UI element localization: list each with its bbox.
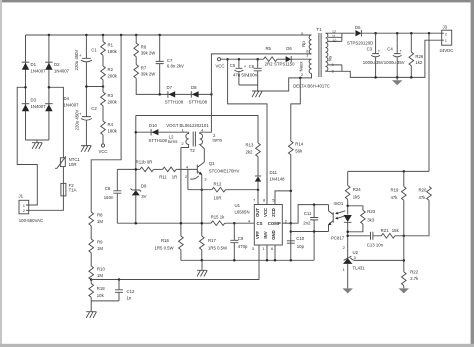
wire COMP stub bbox=[282, 222, 291, 224]
wire D10 line to T2 pin1 bbox=[136, 131, 189, 133]
svg-text:T2: T2 bbox=[190, 148, 196, 153]
junction emitter R12 bbox=[201, 188, 204, 191]
junction HV bus / R1 bbox=[102, 34, 105, 37]
wire aux return bbox=[258, 74, 312, 92]
resistor R11b bbox=[140, 167, 154, 172]
junction CS line D9 bbox=[135, 222, 138, 225]
wire D10 branch vertical bbox=[135, 116, 137, 191]
IC U1 box bbox=[254, 205, 282, 246]
svg-text:10R: 10R bbox=[69, 162, 77, 167]
wire feedback top rail bbox=[348, 170, 429, 172]
diode D7 bbox=[168, 91, 175, 97]
svg-text:39k 2W: 39k 2W bbox=[141, 72, 157, 77]
svg-text:VFF: VFF bbox=[255, 231, 260, 239]
svg-text:6.8n 2kV: 6.8n 2kV bbox=[167, 64, 184, 69]
wire OUT stub bbox=[257, 190, 259, 205]
wire C5 C6 bottoms bbox=[239, 85, 258, 91]
wire INV stub bbox=[266, 245, 268, 260]
svg-text:11: 11 bbox=[332, 35, 336, 39]
wire R23 bottom bbox=[348, 224, 363, 232]
junction HV bus / D2 rail bbox=[48, 34, 51, 37]
resistor R18 bbox=[89, 284, 94, 298]
fuse F2 bbox=[61, 183, 66, 199]
junction CS line R17 bbox=[201, 222, 204, 225]
svg-text:2k2: 2k2 bbox=[246, 149, 254, 154]
svg-text:180k: 180k bbox=[108, 129, 118, 134]
diode D6 bbox=[286, 56, 292, 62]
wire sec pins 12 11 10 tie bbox=[326, 33, 342, 41]
svg-text:C12: C12 bbox=[127, 289, 135, 294]
svg-text:15k: 15k bbox=[392, 228, 400, 233]
junction rail C9 bbox=[233, 259, 236, 262]
svg-text:12: 12 bbox=[332, 30, 336, 34]
svg-text:R23: R23 bbox=[367, 209, 375, 214]
junction VFF tap bbox=[90, 278, 93, 281]
wire sec pins 9 8 tie bbox=[326, 65, 342, 71]
junction TL431 ref bbox=[403, 259, 406, 262]
svg-text:Q1: Q1 bbox=[209, 161, 215, 166]
svg-text:C4: C4 bbox=[387, 47, 393, 52]
wire R4 to VCC terminal bbox=[102, 135, 104, 144]
wire R16 bottom bbox=[180, 250, 182, 261]
svg-text:1N4007: 1N4007 bbox=[31, 69, 47, 74]
wire R chain top bbox=[102, 35, 104, 42]
wire C11 bottom to rail bbox=[313, 232, 315, 261]
svg-text:R26: R26 bbox=[415, 54, 423, 59]
svg-text:PC817: PC817 bbox=[331, 236, 345, 241]
resistor R6 bbox=[134, 43, 139, 57]
svg-text:1M: 1M bbox=[97, 246, 103, 251]
wire output ground bus bbox=[342, 40, 442, 77]
svg-text:T1: T1 bbox=[316, 27, 322, 32]
resistor R1 bbox=[101, 42, 106, 56]
junction R26 top bbox=[410, 32, 413, 35]
svg-text:2R2: 2R2 bbox=[265, 62, 273, 67]
svg-text:R20: R20 bbox=[419, 187, 427, 192]
wire VFF sense from HV bus bbox=[91, 35, 121, 212]
svg-text:Ns: Ns bbox=[328, 56, 333, 61]
junction R19 C13 node bbox=[403, 235, 406, 238]
junction HV bus / C7 bbox=[158, 34, 161, 37]
junction rail C10 bbox=[290, 259, 293, 262]
svg-text:10R: 10R bbox=[214, 196, 222, 201]
capacitor C4 bbox=[393, 33, 402, 77]
ground primary rail bbox=[197, 270, 207, 276]
wire COMP riser bbox=[291, 205, 329, 224]
svg-text:R24: R24 bbox=[353, 187, 361, 192]
svg-text:+: + bbox=[399, 49, 402, 54]
svg-text:1n: 1n bbox=[127, 296, 132, 301]
svg-text:C1: C1 bbox=[91, 48, 97, 53]
wire 24V sense line bbox=[428, 33, 430, 171]
junction C3 top bbox=[374, 32, 377, 35]
wire R2 to mid bbox=[102, 80, 104, 92]
resistor R21 bbox=[381, 234, 395, 239]
resistor R20 bbox=[427, 187, 432, 201]
junction HV bus / R6 bbox=[135, 34, 138, 37]
capacitor C11 bbox=[310, 205, 318, 232]
svg-text:R14: R14 bbox=[295, 141, 303, 146]
svg-text:1M: 1M bbox=[97, 219, 103, 224]
wire AC left midpoint bbox=[17, 87, 37, 205]
junction LED cathode R23 bbox=[346, 231, 349, 234]
wire D1 rail bbox=[25, 35, 27, 140]
wire ZCD stub bbox=[275, 191, 291, 205]
capacitor C10 bbox=[287, 241, 295, 243]
wire R12 to OUT node bbox=[226, 189, 259, 191]
svg-text:D9: D9 bbox=[141, 183, 147, 188]
capacitor C13 bbox=[367, 232, 375, 240]
svg-text:C6: C6 bbox=[249, 64, 255, 69]
capacitor C8 bbox=[113, 169, 121, 223]
transistor Q1 bbox=[188, 162, 204, 190]
winding T1 primary Np bbox=[309, 35, 311, 54]
svg-text:STPS1150: STPS1150 bbox=[274, 62, 295, 67]
svg-text:C8: C8 bbox=[105, 186, 111, 191]
resistor R16 bbox=[179, 236, 184, 250]
wire D2 rail bbox=[48, 35, 50, 140]
wire HV top bus bbox=[26, 34, 312, 36]
svg-text:10p: 10p bbox=[297, 244, 305, 249]
resistor R4 bbox=[101, 121, 106, 135]
svg-text:1: 1 bbox=[445, 39, 447, 43]
core T2 bbox=[193, 132, 195, 147]
svg-text:R2: R2 bbox=[108, 67, 114, 72]
junction C11 bottom bbox=[313, 230, 316, 233]
svg-text:R5: R5 bbox=[265, 46, 271, 51]
svg-text:R9: R9 bbox=[97, 240, 103, 245]
capacitor C3 bbox=[371, 33, 380, 77]
svg-text:R3: R3 bbox=[108, 93, 114, 98]
svg-text:R18: R18 bbox=[97, 286, 105, 291]
svg-text:R6: R6 bbox=[141, 45, 147, 50]
junction C9 bbox=[233, 222, 236, 225]
capacitor C9 bbox=[230, 223, 238, 260]
window frame left bbox=[0, 0, 2, 347]
resistor R10 bbox=[89, 266, 94, 280]
svg-text:R11: R11 bbox=[159, 175, 167, 180]
wire R6-R7 bbox=[135, 57, 137, 65]
junction C5 bbox=[238, 58, 241, 61]
svg-text:D4: D4 bbox=[64, 96, 70, 101]
diode D11 bbox=[255, 176, 261, 190]
svg-text:DELTA B6H-4017C: DELTA B6H-4017C bbox=[293, 84, 330, 89]
svg-text:D8: D8 bbox=[191, 85, 197, 90]
junction rail R17 bbox=[201, 259, 204, 262]
resistor R23 bbox=[361, 210, 366, 224]
wire R11 to base bbox=[176, 168, 198, 170]
svg-text:R7: R7 bbox=[141, 66, 147, 71]
wire C12 bottom to R18 bottom bbox=[91, 300, 119, 302]
wire T1 pin6 to T2 winding bbox=[200, 54, 312, 132]
wire T2 pin2 down to R16 bbox=[180, 148, 182, 237]
wire R17 bottom bbox=[201, 250, 203, 261]
junction COMP node bbox=[290, 222, 293, 225]
wire R13 to D11 bbox=[257, 157, 259, 176]
svg-text:47k: 47k bbox=[419, 195, 427, 200]
svg-text:turns: turns bbox=[213, 138, 223, 143]
wire mid link C1C2 to R2R3 bbox=[86, 86, 103, 88]
capacitor C2 bbox=[79, 112, 92, 121]
svg-text:C11: C11 bbox=[304, 211, 312, 216]
capacitor C7 bbox=[156, 35, 164, 94]
wire VCC bus bbox=[221, 58, 264, 60]
resistor R19 bbox=[402, 187, 407, 201]
window frame right bbox=[471, 0, 474, 347]
junction CS line R16 bbox=[180, 222, 183, 225]
svg-text:D3: D3 bbox=[31, 98, 37, 103]
junction mid link left bbox=[85, 85, 88, 88]
svg-text:1N4007: 1N4007 bbox=[31, 104, 47, 109]
svg-text:1N4007: 1N4007 bbox=[54, 69, 70, 74]
svg-text:3V: 3V bbox=[141, 194, 146, 199]
ground bridge bbox=[32, 143, 42, 149]
ground VCC caps bbox=[252, 91, 262, 97]
wire R19 down bbox=[403, 200, 405, 272]
svg-text:2.7k: 2.7k bbox=[410, 276, 419, 281]
svg-text:R13: R13 bbox=[246, 142, 254, 147]
thermistor NTC1 bbox=[55, 152, 66, 184]
svg-text:C7: C7 bbox=[167, 58, 173, 63]
resistor R2 bbox=[101, 66, 106, 80]
junction R19 top bbox=[403, 170, 406, 173]
svg-text:56k: 56k bbox=[295, 148, 303, 153]
svg-text:TL431: TL431 bbox=[353, 265, 366, 270]
svg-text:220u 450V: 220u 450V bbox=[74, 49, 79, 70]
svg-text:R4: R4 bbox=[108, 122, 114, 127]
junction C6 bbox=[256, 58, 259, 61]
junction C3 bottom bbox=[374, 76, 377, 79]
svg-text:1k5: 1k5 bbox=[353, 194, 361, 199]
diode D3 bbox=[22, 104, 30, 112]
svg-text:3: 3 bbox=[306, 53, 308, 57]
wire CS line bbox=[117, 222, 211, 224]
wire 24V bus bbox=[362, 32, 442, 34]
svg-text:+: + bbox=[79, 53, 82, 58]
svg-text:C10: C10 bbox=[296, 236, 304, 241]
diode LED ISO1 bbox=[344, 215, 352, 258]
junction HV bus / C1 bbox=[85, 34, 88, 37]
svg-text:D7: D7 bbox=[167, 85, 173, 90]
junction D10 node bbox=[135, 131, 138, 134]
resistor R26 bbox=[409, 33, 414, 77]
resistor R15 bbox=[211, 221, 225, 226]
wire ground stub rail bbox=[201, 260, 203, 270]
junction opto return bbox=[290, 230, 293, 233]
wire bridge bottom bbox=[26, 139, 49, 141]
diode D10 bbox=[151, 129, 158, 135]
svg-text:1R: 1R bbox=[172, 175, 178, 180]
svg-text:VCC: VCC bbox=[263, 208, 268, 217]
wire R18 bottom to ground bbox=[90, 297, 92, 312]
junction gate line D9 branch bbox=[135, 168, 138, 171]
svg-text:39k 2W: 39k 2W bbox=[141, 51, 157, 56]
svg-text:200k: 200k bbox=[108, 100, 118, 105]
wire gate line corner bbox=[117, 168, 140, 170]
wire GND stub bbox=[274, 245, 276, 260]
svg-text:D5: D5 bbox=[355, 25, 361, 30]
svg-text:D6: D6 bbox=[286, 46, 292, 51]
capacitor C5 bbox=[234, 59, 246, 85]
winding T2 primary L2 bbox=[181, 132, 189, 147]
svg-text:470p: 470p bbox=[238, 244, 248, 249]
wire R5 to D6 bbox=[277, 58, 285, 60]
wire R19 top bbox=[403, 171, 405, 186]
connector J1 bbox=[19, 200, 29, 214]
wire ZCD node to COMP node bbox=[290, 191, 292, 223]
resistor R5 bbox=[264, 57, 278, 62]
svg-text:1R5 0.5W: 1R5 0.5W bbox=[155, 246, 175, 251]
svg-text:R8: R8 bbox=[97, 213, 103, 218]
wire AC right midpoint bbox=[49, 87, 64, 152]
svg-text:R11b 0R: R11b 0R bbox=[136, 160, 153, 165]
svg-text:47k: 47k bbox=[391, 195, 399, 200]
svg-text:Np: Np bbox=[301, 41, 306, 47]
svg-text:STPS20120D: STPS20120D bbox=[347, 41, 373, 46]
winding T2 secondary 2 turns bbox=[200, 132, 205, 162]
shunt regulator U2 TL431 bbox=[343, 256, 404, 288]
diode D8 bbox=[191, 91, 198, 97]
svg-text:C5: C5 bbox=[230, 63, 236, 68]
ground R18 bbox=[86, 312, 96, 318]
svg-text:D10: D10 bbox=[149, 123, 157, 128]
svg-text:1R5 0.5W: 1R5 0.5W bbox=[208, 246, 228, 251]
junction AC left bbox=[24, 86, 27, 89]
wire R6 top bbox=[135, 35, 137, 43]
optocoupler ISO1 transistor bbox=[328, 205, 333, 232]
resistor R13 bbox=[256, 143, 261, 157]
svg-text:100-550VAC: 100-550VAC bbox=[19, 218, 43, 223]
wire R23 branch top bbox=[348, 206, 363, 211]
svg-text:ZCD: ZCD bbox=[271, 208, 276, 217]
svg-text:STTH108: STTH108 bbox=[189, 99, 208, 104]
svg-text:1k2: 1k2 bbox=[415, 60, 423, 65]
wire COMP node down bbox=[290, 223, 292, 260]
junction aux ZCD takeoff bbox=[299, 77, 302, 80]
diode D4 bbox=[45, 104, 53, 112]
svg-text:1N4148: 1N4148 bbox=[270, 176, 286, 181]
wire R15 to CS pin bbox=[225, 222, 255, 224]
wire R14 down to ZCD node bbox=[290, 155, 292, 191]
wire sec out to D5 bbox=[342, 32, 355, 34]
svg-text:8: 8 bbox=[332, 70, 334, 74]
wire output ground stub bbox=[396, 77, 398, 80]
junction ZCD node bbox=[290, 190, 293, 193]
svg-text:R1: R1 bbox=[108, 43, 114, 48]
wire C1 column top bbox=[85, 35, 87, 58]
svg-text:D11: D11 bbox=[270, 170, 278, 175]
svg-text:VCC: VCC bbox=[215, 63, 224, 68]
resistor R11 bbox=[163, 167, 177, 172]
svg-text:220u 450V: 220u 450V bbox=[75, 109, 80, 130]
wire clamp node to D7 line bbox=[136, 78, 211, 94]
svg-text:COMP: COMP bbox=[268, 221, 281, 226]
core T1 bbox=[319, 33, 321, 77]
wire R12 line bbox=[188, 189, 212, 191]
junction sense top bbox=[428, 32, 431, 35]
capacitor C1 bbox=[79, 53, 92, 62]
svg-text:VCC: VCC bbox=[98, 149, 107, 154]
wire R9-R10 bbox=[90, 253, 92, 266]
resistor R12 bbox=[212, 187, 226, 192]
svg-text:R22: R22 bbox=[410, 270, 418, 275]
svg-text:STTH108: STTH108 bbox=[149, 138, 168, 143]
wire clamp rail D10-R13 bbox=[136, 116, 258, 144]
wire fuse to J1 pin2 bbox=[29, 199, 64, 210]
resistor R7 bbox=[134, 65, 139, 79]
svg-text:L6565N: L6565N bbox=[235, 210, 250, 215]
resistor R3 bbox=[101, 92, 106, 106]
junction clamp line at collector rail bbox=[210, 93, 213, 96]
connector J3 bbox=[442, 30, 452, 45]
wire R3-R4 bbox=[102, 106, 104, 121]
wire D6 to T1 pin3 bbox=[291, 58, 311, 60]
junction VCC wire bbox=[226, 58, 229, 61]
svg-text:D2: D2 bbox=[54, 62, 60, 67]
ground output bbox=[392, 80, 402, 85]
wire C1 to C2 bbox=[85, 62, 87, 117]
svg-text:200k: 200k bbox=[108, 74, 118, 79]
svg-text:ISO1: ISO1 bbox=[334, 201, 344, 206]
svg-text:C2: C2 bbox=[91, 106, 97, 111]
diode D2 bbox=[45, 62, 53, 70]
svg-text:1000u 35V: 1000u 35V bbox=[363, 60, 384, 65]
junction C11 top bbox=[313, 203, 316, 206]
svg-text:10: 10 bbox=[332, 39, 336, 43]
svg-text:R16: R16 bbox=[161, 238, 169, 243]
junction OUT node bbox=[257, 188, 260, 191]
junction C12 top bbox=[118, 278, 121, 281]
svg-text:U1: U1 bbox=[235, 203, 241, 208]
capacitor C12 bbox=[115, 280, 123, 301]
winding T1 secondary Ns bbox=[326, 33, 328, 71]
svg-text:R10: R10 bbox=[97, 267, 105, 272]
svg-text:100n: 100n bbox=[248, 72, 258, 77]
window frame bottom bbox=[0, 344, 474, 347]
junction INV rail bbox=[266, 259, 269, 262]
svg-text:R15 1k: R15 1k bbox=[211, 215, 225, 220]
zener D9 bbox=[131, 189, 142, 224]
wire R24 to LED bbox=[347, 199, 349, 214]
svg-text:C13 10n: C13 10n bbox=[367, 243, 384, 248]
junction C7 clamp line bbox=[158, 93, 161, 96]
svg-text:J1: J1 bbox=[19, 194, 24, 199]
junction C4 top bbox=[396, 32, 399, 35]
svg-text:2n2: 2n2 bbox=[303, 221, 311, 226]
wire C2 to ground bbox=[85, 120, 87, 145]
resistor R9 bbox=[89, 239, 94, 253]
svg-text:STTH108: STTH108 bbox=[165, 99, 184, 104]
capacitor C6 bbox=[254, 59, 262, 85]
svg-text:10k: 10k bbox=[97, 293, 105, 298]
svg-text:Naux: Naux bbox=[299, 61, 304, 72]
svg-text:GND: GND bbox=[271, 230, 276, 240]
svg-text:2: 2 bbox=[445, 32, 447, 36]
resistor R14 bbox=[289, 141, 294, 155]
svg-text:J3: J3 bbox=[443, 24, 448, 29]
winding T1 aux Naux bbox=[309, 59, 311, 73]
svg-text:T1A: T1A bbox=[69, 188, 77, 193]
terminal VCC startup bbox=[101, 144, 104, 147]
svg-text:9: 9 bbox=[332, 63, 334, 67]
svg-text:R21: R21 bbox=[381, 228, 389, 233]
wire R24 top bbox=[347, 171, 349, 185]
wire R11b-R11 bbox=[154, 168, 163, 170]
junction C4 bottom bbox=[396, 76, 399, 79]
svg-text:1N4007: 1N4007 bbox=[64, 103, 80, 108]
svg-text:C3: C3 bbox=[367, 47, 373, 52]
junction GND rail bbox=[274, 259, 277, 262]
